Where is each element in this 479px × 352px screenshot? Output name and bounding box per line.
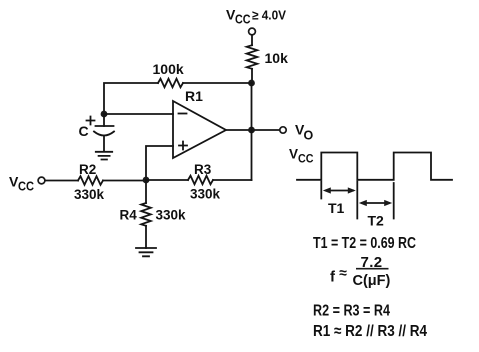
- node A (10k / 100k / output rail junction): [248, 80, 255, 87]
- svg-text:R4: R4: [120, 208, 138, 223]
- svg-text:R1: R1: [185, 88, 203, 104]
- ground (capacitor): [96, 152, 112, 160]
- svg-text:T2: T2: [368, 213, 385, 229]
- wire 100k to node A: [183, 82, 252, 84]
- ground (R4): [136, 248, 156, 256]
- terminal VCC left: [38, 177, 45, 184]
- svg-text:T1 = T2 = 0.69 RC: T1 = T2 = 0.69 RC: [313, 235, 416, 252]
- svg-text:R1 ≈ R2 // R3 // R4: R1 ≈ R2 // R3 // R4: [313, 323, 427, 340]
- op-amp U1: [173, 101, 226, 158]
- resistor R4 330k: [141, 203, 151, 226]
- op-amp inverting input mark: [179, 113, 187, 115]
- wire node D to R4: [145, 180, 147, 203]
- terminal VO: [280, 127, 286, 133]
- svg-text:C: C: [79, 123, 89, 139]
- op-amp non-inverting input mark: [179, 142, 187, 150]
- svg-text:T1: T1: [328, 200, 345, 216]
- node output junction: [248, 127, 255, 134]
- wire op-amp output: [226, 129, 280, 131]
- svg-text:C(μF): C(μF): [353, 273, 391, 289]
- svg-text:330k: 330k: [74, 187, 105, 202]
- svg-text:330k: 330k: [156, 208, 187, 223]
- resistor R1 100k: [158, 79, 183, 88]
- wire inverting input: [104, 113, 173, 115]
- svg-text:10k: 10k: [265, 50, 289, 66]
- formula fraction bar: [356, 268, 389, 270]
- svg-text:R3: R3: [194, 162, 212, 177]
- capacitor polarity plus: [87, 117, 95, 125]
- wire terminal to R 10k: [251, 35, 253, 45]
- svg-text:O: O: [304, 129, 314, 143]
- T1 dimension arrow: [323, 187, 356, 193]
- wire R 10k to node A: [251, 69, 253, 83]
- dimension extension lines: [321, 182, 393, 219]
- svg-text:CC: CC: [235, 13, 251, 27]
- wire right vertical rail: [251, 83, 253, 180]
- wire R2 to node D: [103, 180, 146, 182]
- svg-text:100k: 100k: [153, 61, 184, 77]
- wire non-inverting input: [146, 146, 173, 180]
- svg-text:R2 = R3 = R4: R2 = R3 = R4: [313, 303, 390, 320]
- svg-text:CC: CC: [298, 152, 314, 166]
- svg-text:CC: CC: [18, 180, 34, 194]
- T2 dimension arrow: [359, 200, 392, 206]
- svg-text:330k: 330k: [190, 187, 221, 202]
- waveform square wave: [297, 153, 452, 180]
- resistor 10k: [247, 45, 258, 69]
- svg-text:V: V: [289, 147, 298, 162]
- wire R4 to ground: [145, 226, 147, 248]
- svg-text:R2: R2: [79, 162, 96, 177]
- resistor R3 330k: [188, 176, 213, 185]
- wire R3 to output rail: [213, 179, 252, 181]
- node D (R2 / R3 / R4 / + input junction): [143, 177, 150, 184]
- terminal VCC top: [249, 28, 256, 35]
- node B (C / inverting input junction): [101, 111, 108, 118]
- wire node D to R3: [146, 179, 188, 181]
- capacitor C: [94, 114, 114, 152]
- wire 100k feedback to inverting node: [104, 83, 158, 112]
- svg-text:f ≈: f ≈: [330, 265, 347, 286]
- resistor R2 330k: [78, 176, 103, 185]
- svg-text:≥ 4.0V: ≥ 4.0V: [252, 8, 286, 23]
- wire VCC terminal to R2: [45, 180, 78, 182]
